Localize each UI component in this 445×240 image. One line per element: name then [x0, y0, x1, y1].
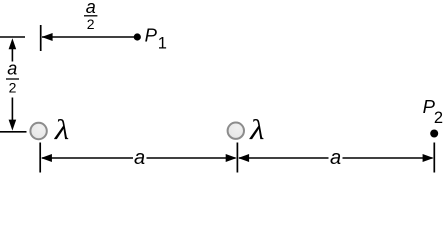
- charge circle 2 (middle line charge): [228, 123, 244, 139]
- tick: bottom dimensions middle: [236, 143, 238, 173]
- svg-text:a: a: [330, 147, 341, 169]
- svg-text:P: P: [145, 25, 158, 46]
- tick: bottom dimensions right end: [433, 143, 435, 173]
- point P2: [430, 130, 438, 138]
- label P1: [145, 25, 167, 53]
- label lambda 1: [54, 114, 69, 145]
- svg-text:λ: λ: [54, 114, 69, 145]
- charge circle 1 (left line charge): [30, 123, 46, 139]
- dimension line a/2 (top, from tick to point P1): [42, 33, 134, 41]
- svg-text:λ: λ: [249, 114, 264, 145]
- left dimension upper arrow (points up to top tick): [9, 38, 17, 61]
- label a/2 (left fraction): [6, 59, 19, 96]
- svg-text:a: a: [7, 59, 17, 79]
- point P1: [134, 33, 141, 40]
- svg-text:2: 2: [87, 16, 95, 32]
- dimension line a (right span, between tick middle and tick right): [238, 154, 434, 162]
- tick: top dimension left end: [40, 25, 42, 51]
- label lambda 2: [249, 114, 264, 145]
- svg-text:2: 2: [9, 80, 17, 96]
- svg-text:a: a: [86, 0, 96, 17]
- tick: left dimension top end: [0, 36, 25, 38]
- svg-text:2: 2: [434, 109, 443, 127]
- svg-text:1: 1: [158, 35, 167, 53]
- label a/2 (top fraction): [84, 0, 97, 32]
- svg-text:a: a: [134, 147, 145, 169]
- tick: bottom dimensions left end: [39, 143, 41, 173]
- left dimension lower arrow (points down to bottom tick): [9, 98, 17, 131]
- dimension line a (left span, between tick left and tick middle): [41, 154, 237, 162]
- tick: left dimension bottom end: [0, 131, 27, 133]
- label P2: [423, 96, 443, 127]
